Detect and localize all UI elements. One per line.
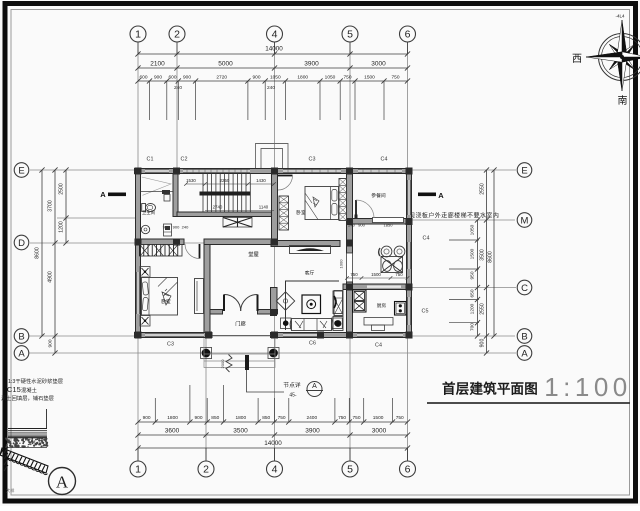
svg-text:客厅: 客厅 [305,270,315,277]
svg-text:D: D [18,238,25,249]
wardrobe bedroom1 [140,245,183,257]
svg-text:1500: 1500 [364,74,375,80]
svg-text:1: 1 [135,29,141,41]
svg-text:E: E [18,165,24,176]
svg-text:C4: C4 [381,157,388,163]
svg-text:堂屋: 堂屋 [248,250,259,258]
svg-text:C15: C15 [7,385,21,394]
svg-text:750: 750 [396,415,404,421]
svg-text:1500: 1500 [373,415,384,421]
svg-text:1500: 1500 [371,272,381,277]
left dimension lines [35,167,69,355]
svg-text:2250: 2250 [220,178,230,183]
svg-text:1050: 1050 [470,224,476,235]
room labels [161,192,386,328]
wall stair south [177,212,278,217]
svg-text:4900: 4900 [48,271,54,283]
svg-text:14000: 14000 [264,440,282,447]
grid axis lines [29,50,516,460]
wall bottom right segment [271,333,412,338]
svg-text:900: 900 [48,339,54,347]
svg-text:850: 850 [262,415,270,421]
svg-text:A: A [521,348,528,359]
svg-text:A: A [312,383,317,390]
toilet [142,204,156,212]
svg-text:C4: C4 [375,343,382,349]
svg-text:900: 900 [143,415,151,421]
sofa side tables [281,318,343,329]
axis circles top: 1 2 4 5 6 [130,26,416,54]
svg-text:1800: 1800 [235,415,246,421]
porch steps outline [204,338,275,368]
svg-text:C: C [521,283,528,294]
wall axis C [343,284,407,290]
columns [135,168,413,339]
svg-text:C4: C4 [423,236,430,242]
svg-text:650: 650 [470,289,476,297]
svg-text:1800: 1800 [297,74,308,80]
window C2 [183,169,250,173]
window C4 right [407,242,411,269]
svg-text:C3: C3 [167,342,174,348]
svg-text:A: A [56,473,69,492]
svg-text:1800: 1800 [167,415,178,421]
svg-text:2550: 2550 [480,303,486,315]
svg-text:3500: 3500 [480,249,486,261]
coffee table [302,295,321,314]
bathroom squat fixture [164,224,172,236]
stair treads [203,174,250,212]
svg-text:大样: 大样 [6,487,14,494]
wall bedroom1 right [204,245,210,333]
svg-text:3900: 3900 [305,428,320,435]
window labels [147,157,430,349]
window C5 right [407,297,411,325]
svg-text:240: 240 [182,225,189,230]
right dimension lines [449,167,497,355]
axis circles right: E M C B A [517,163,532,361]
svg-text:1850: 1850 [384,223,394,228]
svg-text:C5: C5 [422,309,429,315]
svg-text:A: A [438,191,444,200]
svg-text:900: 900 [173,225,180,230]
svg-text:2: 2 [174,29,180,41]
svg-text:1430: 1430 [256,178,266,183]
svg-text:750: 750 [343,74,351,80]
section cut bar at porch [245,355,249,370]
svg-text:参餐间: 参餐间 [371,192,386,199]
svg-text:3000: 3000 [372,428,387,435]
svg-text:8600: 8600 [35,247,41,259]
bed middle bedroom [305,187,339,220]
svg-text:3900: 3900 [304,61,319,68]
kitchen stove [353,290,367,312]
svg-text:850: 850 [211,415,219,421]
detail callout A [283,381,323,399]
window C4 top [358,169,402,173]
bed bedroom1 [142,278,178,316]
svg-text:E: E [521,165,527,176]
section marker A left [100,190,126,199]
svg-text:C2: C2 [181,157,188,163]
compass rose [572,14,640,108]
svg-text:1200: 1200 [59,221,65,233]
svg-text:4: 4 [272,464,278,476]
svg-text:节点详: 节点详 [283,381,301,389]
wall left outer [136,169,141,338]
desk bedroom1 [195,279,204,314]
bottom dimension lines [135,385,410,451]
double entry door [224,294,258,311]
svg-text:卫生间: 卫生间 [142,209,155,216]
window C1 [145,169,169,173]
nightstands bedroom1 [140,267,150,327]
dining table set [379,246,405,272]
svg-text:900: 900 [194,415,202,421]
bathroom shower fixture [164,195,170,202]
porch columns [201,348,279,359]
window C4 bottom [357,333,403,337]
svg-text:A: A [18,348,25,359]
svg-text:750: 750 [391,74,399,80]
hall X table [223,218,252,228]
top dimension lines [135,46,410,121]
svg-text:厨房: 厨房 [377,302,387,309]
svg-text:西: 西 [572,54,582,65]
window left bedroom [136,272,140,314]
svg-text:14000: 14000 [265,46,283,53]
porch slab edge line [212,335,271,337]
axis circles bottom: 1 2 4 5 6 [130,448,416,477]
svg-text:1050: 1050 [270,74,281,80]
svg-text:1050: 1050 [325,74,336,80]
wall bottom left segment [135,333,213,338]
living room rail [286,281,340,330]
kitchen sink [395,302,407,316]
svg-text:-4L4: -4L4 [615,14,625,19]
svg-text:1140: 1140 [259,205,269,210]
fridge [334,291,343,316]
section marker A right [418,191,444,200]
sofa [290,319,333,331]
svg-text:750: 750 [350,272,358,277]
washer [333,317,343,331]
svg-text:南: 南 [618,94,628,107]
window right upper [407,180,411,215]
dim 240 900 1850 [348,222,393,227]
svg-text:750: 750 [278,415,286,421]
svg-text:1:3干硬性水泥砂浆垫层: 1:3干硬性水泥砂浆垫层 [8,377,63,385]
washbasin [141,225,149,233]
dim 750 1500 750 [345,272,409,280]
svg-text:2000: 2000 [220,359,225,369]
title underline [427,402,630,404]
svg-text:3500: 3500 [233,428,248,435]
wardrobe mid-bedroom [279,196,289,230]
wall axis M [353,219,407,225]
detail section drawing [0,409,48,475]
svg-text:卧室: 卧室 [296,209,306,216]
wall entry recess [210,310,223,315]
svg-text:240: 240 [267,85,275,91]
door mid-bedroom [278,176,293,191]
bathroom shower marks [142,177,171,195]
svg-text:3600: 3600 [165,428,180,435]
window C3 top [283,169,341,173]
svg-text:900: 900 [252,74,260,80]
svg-text:5: 5 [347,464,353,476]
wall stair/kitchen strip x347 [347,174,353,254]
svg-text:1:100: 1:100 [544,372,632,402]
svg-text:2500: 2500 [59,183,65,195]
svg-text:900: 900 [480,339,486,348]
console table [290,246,331,254]
TV cabinet [333,291,343,314]
svg-text:3000: 3000 [371,61,386,68]
svg-text:3700: 3700 [48,200,54,212]
wall bathroom right [173,174,178,217]
leader to detail callout [247,370,285,392]
svg-text:900: 900 [183,74,191,80]
kitchen counter [364,318,393,331]
svg-text:6: 6 [405,464,411,476]
svg-text:B: B [18,331,24,342]
svg-text:2720: 2720 [216,74,227,80]
porch break mark [226,355,232,373]
roof outline above top wall [256,144,289,169]
wall stub hall/living [271,288,278,310]
svg-text:750: 750 [338,415,346,421]
svg-text:C3: C3 [309,157,316,163]
svg-text:900: 900 [154,74,162,80]
svg-text:C1: C1 [147,157,154,163]
wall right outer [407,169,412,338]
svg-text:C6: C6 [309,341,316,347]
svg-text:5: 5 [347,29,353,41]
window C6 [283,333,317,337]
axis circles left: E D B A [14,163,29,361]
detail notes text [1,377,63,402]
window C3 bottom [145,333,204,337]
bathroom divider line [141,191,174,193]
wall axis4 vertical [272,174,278,241]
svg-text:6: 6 [405,29,411,41]
svg-text:950: 950 [470,271,476,279]
svg-text:1000: 1000 [339,259,344,269]
svg-text:1200: 1200 [470,303,476,314]
svg-text:2400: 2400 [306,415,317,421]
svg-text:A: A [100,190,106,199]
small dims bathroom [163,225,189,230]
wall axis D [141,239,185,245]
door bedroom1 [185,244,200,259]
svg-text:700: 700 [470,323,476,331]
svg-text:2100: 2100 [150,61,165,68]
left edge hatch [4,447,8,471]
svg-text:M: M [521,215,529,226]
svg-text:45-: 45- [289,393,297,399]
svg-text:1500: 1500 [470,248,476,259]
svg-text:600: 600 [139,74,147,80]
wall top outer [135,169,412,174]
svg-text:1: 1 [135,464,141,476]
svg-text:2550: 2550 [480,183,486,195]
svg-text:5000: 5000 [218,61,233,68]
svg-text:750: 750 [352,415,360,421]
door right room [355,200,375,219]
svg-text:600: 600 [168,74,176,80]
plant diamond [276,292,294,310]
svg-text:B: B [521,331,527,342]
svg-text:现浇板户外走廊楼梯不要水室内: 现浇板户外走廊楼梯不要水室内 [409,212,499,220]
svg-text:门廊: 门廊 [235,320,245,328]
detail circle A [49,468,76,495]
svg-text:首层建筑平面图: 首层建筑平面图 [442,381,538,397]
svg-text:素土回填层，铺石垫层: 素土回填层，铺石垫层 [1,394,54,402]
wall mid-bedroom south [271,241,340,247]
svg-text:2740: 2740 [213,205,223,210]
wall stub small [162,190,170,194]
svg-text:8600: 8600 [488,251,494,263]
svg-text:900: 900 [358,222,365,227]
svg-text:240: 240 [348,222,355,227]
stair handrail [200,192,251,196]
svg-text:混凝土: 混凝土 [21,386,38,394]
svg-text:4: 4 [272,29,278,41]
svg-text:2: 2 [203,464,209,476]
svg-text:750: 750 [395,272,403,277]
stair dims [184,178,276,211]
